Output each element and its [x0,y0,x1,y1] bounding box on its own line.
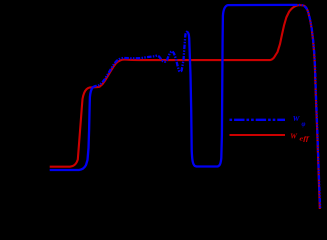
svg-text:eff: eff [299,135,309,142]
svg-text:φ: φ [302,121,306,128]
svg-text:W: W [290,133,297,141]
svg-text:W: W [293,115,300,123]
